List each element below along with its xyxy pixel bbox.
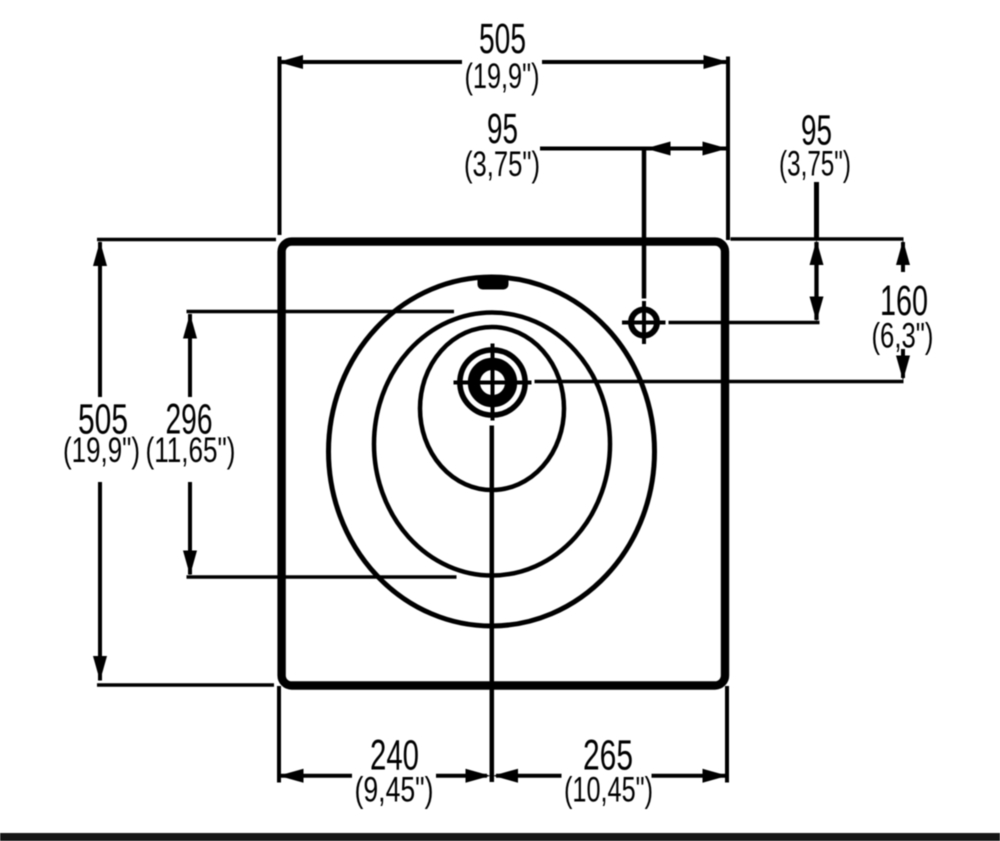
dim bottom: left extension line bbox=[277, 686, 281, 783]
dim 505 top: line bbox=[280, 60, 463, 64]
dim 95 right: dim line bbox=[814, 242, 818, 320]
dim 160 right: lower stub bbox=[901, 349, 905, 378]
svg-text:(19,9"): (19,9") bbox=[63, 430, 140, 470]
basin middle ellipse bbox=[374, 313, 610, 576]
dim 505 left: up arrow bbox=[93, 241, 107, 266]
dim 505 top: right arrow bbox=[704, 55, 729, 69]
dim 95 right: up arrow bbox=[810, 240, 824, 265]
dim 95 right: leader bbox=[814, 182, 819, 240]
svg-text:(3,75"): (3,75") bbox=[464, 144, 540, 184]
faucet hole circle bbox=[631, 310, 657, 336]
dim 265: left arrow bbox=[493, 769, 518, 783]
svg-text:(11,65"): (11,65") bbox=[146, 430, 236, 470]
dim 265: right arrow bbox=[703, 769, 728, 783]
dim 505 left: top extension line bbox=[97, 238, 276, 242]
svg-text:(6,3"): (6,3") bbox=[872, 316, 934, 356]
faucet centerline right bbox=[669, 321, 820, 325]
faucet centerline up bbox=[642, 149, 647, 299]
dim 505 top: left extension line bbox=[278, 57, 282, 236]
svg-text:(3,75"): (3,75") bbox=[779, 144, 851, 184]
faucet crosshair vertical bbox=[642, 301, 646, 344]
sink outline square bbox=[282, 242, 725, 686]
dim bottom: right extension line bbox=[725, 686, 729, 783]
dim 505 left: down arrow bbox=[93, 656, 107, 681]
faucet crosshair horizontal bbox=[622, 321, 666, 325]
drain crosshair vertical bbox=[491, 344, 495, 421]
dim 296: down arrow bbox=[183, 551, 197, 576]
dim 95 top: right arrow bbox=[703, 142, 728, 156]
dim 505 left: dim line bbox=[98, 242, 102, 397]
dim 296: bottom extension line bbox=[187, 575, 457, 579]
dim 160 right: upper stub bbox=[901, 242, 905, 272]
basin inner slope ellipse bbox=[420, 327, 564, 490]
drain centerline right bbox=[535, 380, 904, 384]
overflow slot bbox=[478, 275, 509, 290]
dim 95 top: left arrow bbox=[646, 142, 671, 156]
drain crosshair horizontal bbox=[454, 381, 532, 385]
drain centerline down bbox=[490, 426, 495, 783]
dim 240: right arrow bbox=[466, 769, 491, 783]
dim 505 top: left arrow bbox=[278, 55, 303, 69]
dim 160 right: down arrow bbox=[896, 356, 910, 381]
basin outer rim ellipse bbox=[329, 277, 655, 626]
dim 296: top extension line bbox=[187, 310, 455, 314]
svg-text:(10,45"): (10,45") bbox=[564, 770, 653, 810]
dim 240: left arrow bbox=[279, 769, 304, 783]
svg-text:(19,9"): (19,9") bbox=[465, 56, 540, 96]
dim 95 right: down arrow bbox=[810, 297, 824, 322]
dim 296: up arrow bbox=[183, 314, 197, 339]
dim 296: dim line bbox=[188, 314, 192, 397]
dim 160 right: up arrow bbox=[896, 240, 910, 265]
dim 505 top: right extension line bbox=[726, 57, 730, 241]
dim 95 right: extension line bbox=[731, 237, 904, 240]
dim 95 top: line bbox=[540, 147, 727, 151]
svg-text:(9,45"): (9,45") bbox=[355, 770, 434, 810]
dim 505 left: bottom extension line bbox=[97, 683, 274, 687]
bottom black bar bbox=[0, 833, 1000, 841]
dim 265: line bbox=[496, 774, 562, 778]
drain outer circle bbox=[460, 350, 525, 415]
drain ring bbox=[474, 364, 511, 401]
dim 240: line bbox=[280, 774, 353, 778]
